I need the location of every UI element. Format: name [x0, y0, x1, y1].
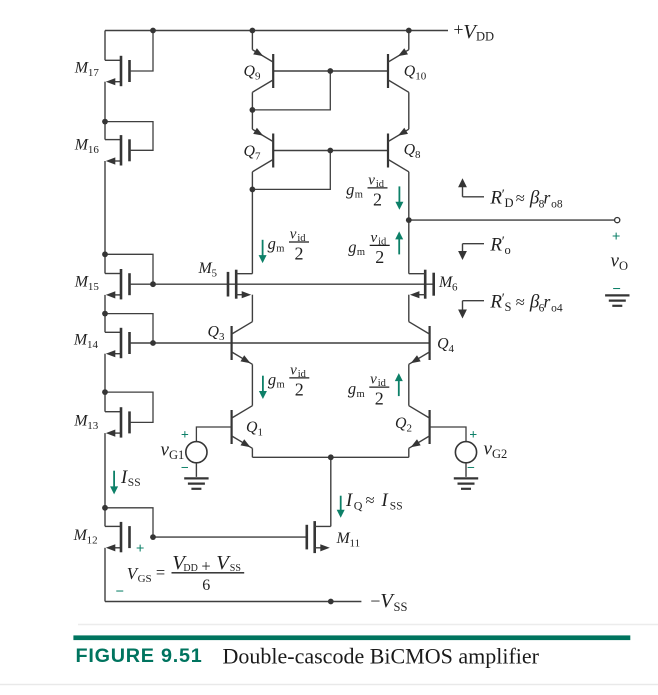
svg-text:id: id: [297, 233, 306, 244]
svg-text:M: M: [73, 527, 88, 544]
svg-text:16: 16: [88, 144, 100, 156]
svg-text:M: M: [74, 274, 89, 291]
svg-text:2: 2: [373, 190, 382, 210]
svg-text:Q: Q: [244, 143, 256, 160]
svg-text:15: 15: [88, 281, 100, 293]
svg-text:g: g: [348, 379, 356, 398]
svg-text:id: id: [298, 369, 307, 380]
svg-text:Q: Q: [395, 415, 407, 432]
svg-text:6: 6: [202, 577, 210, 594]
svg-text:17: 17: [88, 67, 100, 79]
svg-text:SS: SS: [128, 477, 141, 489]
svg-text:3: 3: [219, 331, 225, 343]
svg-text:M: M: [73, 331, 88, 348]
svg-text:+: +: [453, 19, 463, 39]
svg-text:m: m: [357, 247, 365, 258]
svg-text:2: 2: [375, 247, 384, 267]
svg-text:12: 12: [87, 535, 98, 547]
svg-text:+: +: [181, 428, 189, 443]
svg-text:v: v: [368, 173, 375, 189]
svg-text:id: id: [378, 378, 387, 389]
svg-text:v: v: [370, 372, 377, 388]
svg-text:5: 5: [212, 267, 218, 279]
svg-text:FIGURE 9.51: FIGURE 9.51: [76, 645, 203, 667]
svg-text:g: g: [268, 234, 276, 253]
svg-text:m: m: [355, 190, 363, 201]
svg-text:−: −: [115, 584, 124, 600]
svg-text:g: g: [268, 370, 276, 389]
svg-text:id: id: [376, 179, 385, 190]
svg-text:2: 2: [375, 389, 384, 409]
svg-text:R: R: [489, 188, 502, 209]
svg-text:r: r: [544, 188, 551, 208]
svg-text:v: v: [290, 363, 297, 379]
svg-text:Q: Q: [437, 336, 449, 353]
svg-text:2: 2: [295, 380, 304, 400]
svg-text:M: M: [198, 260, 213, 277]
svg-text:9: 9: [255, 70, 261, 82]
svg-text:−: −: [181, 461, 189, 476]
svg-text:10: 10: [415, 71, 427, 83]
svg-text:v: v: [290, 227, 297, 243]
svg-text:≈: ≈: [516, 189, 525, 208]
svg-text:−: −: [370, 591, 380, 611]
svg-text:g: g: [348, 237, 356, 256]
svg-text:Double-cascode BiCMOS amplifie: Double-cascode BiCMOS amplifier: [223, 644, 540, 669]
svg-text:m: m: [357, 389, 365, 400]
svg-text:+: +: [136, 541, 145, 557]
svg-text:R: R: [489, 235, 502, 256]
svg-text:o8: o8: [551, 198, 563, 210]
svg-text:M: M: [73, 412, 88, 429]
svg-text:M: M: [336, 530, 351, 547]
svg-text:g: g: [346, 180, 354, 199]
svg-text:id: id: [378, 237, 387, 248]
svg-text:4: 4: [449, 343, 455, 355]
svg-text:Q: Q: [404, 63, 416, 80]
svg-text:Q: Q: [404, 142, 416, 159]
svg-text:r: r: [544, 292, 551, 312]
svg-text:GS: GS: [138, 573, 152, 585]
svg-text:2: 2: [295, 244, 304, 264]
svg-text:+: +: [469, 428, 477, 443]
svg-text:SS: SS: [394, 600, 408, 614]
svg-text:6: 6: [452, 282, 458, 294]
svg-text:O: O: [619, 259, 628, 273]
svg-text:≈: ≈: [516, 293, 525, 312]
svg-text:7: 7: [255, 150, 261, 162]
svg-text:I: I: [381, 491, 389, 511]
svg-text:M: M: [74, 60, 89, 77]
svg-text:m: m: [277, 380, 285, 391]
svg-text:1: 1: [257, 427, 263, 439]
svg-text:Q: Q: [354, 499, 363, 513]
svg-text:v: v: [371, 230, 378, 246]
svg-text:2: 2: [406, 423, 412, 435]
svg-text:13: 13: [87, 420, 99, 432]
svg-text:≈: ≈: [366, 490, 375, 509]
svg-text:−: −: [612, 282, 621, 298]
svg-text:I: I: [120, 468, 128, 488]
svg-text:−: −: [467, 461, 475, 476]
svg-text:o4: o4: [551, 302, 563, 314]
svg-text:M: M: [438, 274, 453, 291]
svg-text:Q: Q: [208, 324, 220, 341]
svg-text:M: M: [74, 137, 89, 154]
svg-text:=: =: [156, 563, 165, 582]
svg-text:11: 11: [350, 538, 361, 550]
svg-text:Q: Q: [246, 419, 258, 436]
svg-text:R: R: [489, 292, 502, 313]
svg-text:Q: Q: [244, 63, 256, 80]
svg-text:I: I: [345, 491, 353, 511]
svg-text:14: 14: [87, 339, 99, 351]
svg-text:S: S: [505, 300, 512, 314]
svg-text:D: D: [505, 196, 514, 210]
svg-text:m: m: [276, 244, 284, 255]
svg-text:8: 8: [415, 149, 421, 161]
svg-text:DD: DD: [476, 30, 494, 44]
svg-text:o: o: [505, 243, 511, 257]
svg-text:+: +: [612, 229, 621, 245]
svg-text:SS: SS: [390, 500, 403, 512]
svg-text:G2: G2: [492, 447, 507, 461]
